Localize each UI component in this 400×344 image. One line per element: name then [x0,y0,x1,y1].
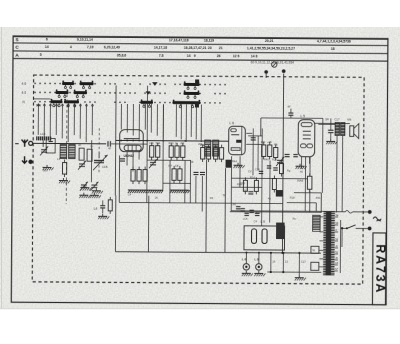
svg-text:18,119: 18,119 [204,38,214,42]
tap box a [311,246,319,253]
wire vertical det2 [257,136,259,170]
svg-text:C1: C1 [237,209,241,213]
switch S6 contact bar [64,100,79,103]
wire padder vertical [90,140,92,182]
coupling capacitor C2 [107,141,109,146]
wire coil down [42,140,44,146]
resistor R2 [64,160,66,163]
svg-text:4F: 4F [287,105,291,109]
resistor R8 [202,145,204,148]
ground lamp a [245,271,247,273]
pilot symbol [272,62,277,67]
svg-text:5R: 5R [325,117,329,121]
svg-text:C8: C8 [175,164,179,168]
svg-text:L 8: L 8 [229,121,234,125]
parts table row lines [13,43,388,46]
svg-text:7,8: 7,8 [159,54,164,58]
svg-text:9,10,11,14: 9,10,11,14 [77,38,93,42]
capacitor C6 [193,171,198,173]
padder capacitor boxes [79,148,84,160]
svg-text:5: 5 [40,53,42,57]
ground below C17 [330,139,332,141]
wire return lower [118,155,120,202]
svg-text:RA6: RA6 [297,179,303,183]
svg-text:C1B: C1B [102,165,108,169]
switch terminal blob upper [195,79,199,85]
svg-text:54A: 54A [156,141,161,145]
svg-text:L 9: L 9 [261,220,266,224]
svg-text:R18: R18 [290,196,295,200]
mains cord symbol [373,217,381,221]
IF can L8 trim pill [231,129,237,132]
ground below can L8 [237,163,239,165]
wire vertical v2 [162,104,165,189]
svg-text:18: 18 [331,47,335,51]
wire bus left vertical [114,85,117,195]
main grid wire [33,142,106,145]
grid capacitor C5 [120,158,125,160]
wire vertical det1 [252,128,254,175]
wave-band switch dotted contact rows [34,82,226,85]
svg-text:14,17,18: 14,17,18 [154,46,167,50]
model label box RA73A [372,233,386,305]
svg-text:R40: R40 [264,157,269,161]
svg-text:4-5: 4-5 [22,91,27,95]
resistor R13d [179,166,181,169]
ground pair a [83,193,85,195]
switch S9 contact bar [184,83,200,86]
tube V2 stems [301,157,303,169]
capacitor C11 [251,137,256,139]
mains terminal dot b [368,227,372,231]
transformer right rail [339,220,341,273]
AF coupling cluster caps [267,165,271,167]
terminal dot above dashed [264,70,268,74]
wire transformer drops [336,135,339,212]
transformer lead wires left [320,216,324,218]
resistor R13c [173,166,175,169]
resistor R13 [138,167,140,170]
ground bus hatched b [170,190,172,193]
wire vertical v7 [201,176,203,211]
svg-text:6,20,12,49: 6,20,12,49 [104,46,120,50]
svg-text:R26: R26 [272,158,277,162]
tube V2 top cap pill [301,123,312,127]
IF can L8 bar a [231,134,239,136]
switch drop wires middle group [120,104,122,129]
ground bus hatched [128,190,130,193]
svg-text:9: 9 [194,54,196,58]
wire vertical v4 [184,160,186,202]
svg-text:CB1: CB1 [231,202,237,206]
resistor RA6 [309,173,311,176]
lower bus wire [267,271,321,273]
svg-text:R7: R7 [169,164,173,168]
HT bus wire [231,210,335,213]
transformer lead wires right [335,216,338,218]
svg-text:C17: C17 [334,117,340,121]
tube V1 electrode stems [126,152,128,166]
svg-text:C4: C4 [128,192,132,196]
svg-text:84A: 84A [316,196,321,200]
capacitor C16 [259,170,263,172]
loop wire top [261,117,323,119]
switch S10 contact bar [184,92,200,95]
resistor R46 [109,197,111,200]
switch S8 contact bar [172,101,200,104]
svg-text:R14: R14 [250,175,255,179]
svg-text:20k: 20k [198,142,203,146]
tube V1 cathode pill [124,145,141,151]
wire tube to transformer [315,122,350,124]
ground below C14 [102,214,104,216]
svg-text:C17: C17 [301,260,306,264]
svg-text:R6: R6 [274,143,278,147]
svg-text:14 8: 14 8 [251,54,258,58]
ground below C21 [84,185,86,187]
svg-text:35,8,6: 35,8,6 [117,53,127,57]
svg-text:R9: R9 [190,160,194,164]
tube V2 grid bars [303,130,311,132]
svg-text:+C5: +C5 [243,217,248,221]
switch wiper arrow row2 [146,91,151,94]
tube V2 cathode pills [300,144,306,148]
output transformer T2 windings [335,122,339,135]
svg-text:4F: 4F [108,146,111,150]
svg-text:23: 23 [208,46,212,50]
trimmer C21 [79,163,85,165]
svg-text:7,19: 7,19 [87,45,94,49]
svg-text:RA73A: RA73A [373,244,387,294]
border frame [11,36,388,305]
svg-text:Rg: Rg [287,169,291,173]
terminal dot mains [282,69,286,73]
trimmer C25 [91,184,97,186]
svg-text:12 6: 12 6 [233,54,240,58]
svg-text:C4: C4 [254,219,258,223]
wire RA6 vertical [309,157,311,176]
svg-text:Ru: Ru [293,217,297,221]
tuning gang dashed link [98,128,100,174]
trimmer C22 [150,161,156,163]
wire can verticals [230,156,232,210]
mains fuse link [335,211,345,213]
svg-text:M6: M6 [347,118,351,122]
resistor R6 [176,143,178,146]
IF can L8 outline [229,126,246,155]
svg-text:17,16,47,118: 17,16,47,118 [169,38,189,42]
resistor R4 [157,143,159,146]
resistor R10 [215,145,217,148]
svg-text:L4: L4 [94,207,98,211]
capacitor C4p [255,212,259,214]
mains transformer T1 core [326,212,332,276]
wire rail cluster bottoms [147,159,191,161]
switch drop wires left group [37,103,39,134]
resistor R17b [255,177,257,180]
wire vertical v6 [195,176,197,203]
resistor R11 [221,145,223,148]
dashed chassis outline [32,75,364,284]
loop wire right drop [321,118,324,192]
resistor R12 [132,167,134,170]
resistor R13b [144,167,146,170]
ground below C1A [95,188,97,190]
capacitor C5p [244,212,248,214]
svg-text:R10: R10 [169,141,174,145]
svg-text:L 6: L 6 [242,257,247,261]
svg-text:20,21: 20,21 [265,39,274,43]
svg-text:14: 14 [45,45,49,49]
electrolytic small blob [276,190,283,197]
svg-text:500: 500 [43,168,48,172]
wire chassis up b [147,196,149,252]
mains transformer T1 winding stack [324,211,335,213]
capacitor C14 [100,205,105,207]
svg-text:4: 4 [70,45,72,49]
switch S5 contact bar [50,100,62,103]
svg-text:16,28,17,47,21: 16,28,17,47,21 [184,46,207,50]
resistor R26 [281,161,283,164]
switch feed wire [33,98,50,100]
svg-text:500: 500 [36,103,41,107]
capacitor C12 [285,153,290,155]
IF can L8 slug [236,140,241,143]
svg-text:L 5: L 5 [300,114,305,118]
switch S2 contact bar [80,82,94,85]
trimmer C23 [277,159,283,161]
IF can inner wire [241,126,243,154]
svg-text:R8: R8 [181,141,185,145]
resistor R5 [170,143,172,146]
svg-text:4F: 4F [78,143,81,147]
RF coil L1 windings [60,145,67,159]
svg-text:R4A: R4A [232,159,237,163]
wire vertical v5 [189,160,191,202]
resistor R17 [244,177,246,180]
svg-text:O: O [335,229,337,232]
switch terminal blob lower [195,101,199,107]
electrolytic C30 [226,160,232,168]
chassis bus junction dots [281,252,283,254]
trimmer C24 [81,184,87,186]
svg-text:1,41,2,50,55,34,94,59,23,2,5,2: 1,41,2,50,55,34,94,59,23,2,5,27 [247,47,295,51]
antenna symbol [21,140,27,147]
tube V2 UL41 envelope [298,120,315,157]
earth terminal symbol [22,156,27,163]
wire rail lower cluster [163,182,191,184]
ground pair b [93,193,95,195]
tube V1 anode bar [124,138,140,140]
electrolytic C8 blob [276,223,285,240]
switch drop wires right group [175,104,177,136]
mains switch lever [342,227,346,229]
svg-text:4-6: 4-6 [22,82,27,86]
wire horizontal grid bus [116,139,228,142]
svg-text:L 8: L 8 [254,257,259,261]
svg-text:21: 21 [219,46,223,50]
wire vertical v3 [169,160,171,202]
loudspeaker [350,126,354,137]
resistor R14 [263,142,265,145]
svg-text:C: C [15,45,19,51]
resistor R9 [208,145,210,148]
switch S7 contact bar [140,101,153,104]
switch wiper arrow row1 [152,82,158,86]
wire can L8 stubs [246,132,252,134]
capacitor C9 [288,112,293,114]
wire chassis up c [205,160,208,252]
svg-text:R1B: R1B [240,181,245,185]
resistor R16 [275,145,277,148]
tube V1 UCH42 envelope [120,130,144,152]
switch S1 contact bar [62,82,74,85]
IF can L8 coil bar [231,148,240,151]
svg-text:26: 26 [217,54,221,58]
svg-text:UCH42: UCH42 [124,154,135,158]
switch S4 contact bar [74,91,88,94]
ground lamp b [258,271,260,273]
svg-text:4,7,44,1,2,3,4,94,5736: 4,7,44,1,2,3,4,94,5736 [317,39,351,43]
capacitor CB1 [236,206,240,208]
wire vertical v1 [146,86,149,203]
wire chassis up a [114,195,116,251]
ground near C10 [299,164,301,166]
resistor R18 [273,176,275,179]
capacitor C17 [328,129,333,131]
mains terminal dot a [368,210,372,214]
wire antenna to coil [33,142,36,144]
lamp feed wires [245,253,247,264]
wire AF bus [248,135,262,137]
wire AVC horizontals [231,186,261,188]
ground below trimmer C20 [46,165,48,167]
ground below L1 [62,178,64,180]
wire vertical det4 [269,160,271,222]
HT bus wire lower [230,211,321,214]
svg-text:A: A [15,53,19,59]
junction dots grid bus [120,140,122,142]
nested loop wires right [294,192,321,194]
wire vertical det3 [261,128,264,225]
capacitor C3 [248,191,253,193]
chassis bus wire [115,252,320,253]
selector slot a [251,229,256,244]
svg-text:6: 6 [46,37,48,41]
voltage selector box [244,226,285,250]
dial lamp La [243,264,249,270]
wire mains vertical [282,74,283,253]
capacitor C10 [293,154,297,156]
tuning capacitor C1B [94,159,104,161]
selector slot b [262,229,267,244]
tap box b [311,262,319,270]
svg-text:CV: CV [248,169,252,173]
ground centre bottom [298,272,300,275]
capacitor C7 [200,171,205,173]
svg-text:+26: +26 [267,140,272,144]
svg-text:L10: L10 [40,132,45,136]
resistor R7 [182,143,184,146]
stub wire a [270,253,272,272]
bottom cluster caps [240,208,244,210]
inner dashed shield line [65,89,68,204]
resistor R15 [269,142,271,145]
wire switch drop [341,227,343,229]
svg-text:14: 14 [187,54,191,58]
filter choke [313,215,321,231]
svg-text:C16: C16 [255,167,260,171]
stub wire c [298,253,300,272]
IF transformer L12 windings [205,140,211,156]
svg-text:140: 140 [149,141,154,145]
dial lamp Lb [256,264,262,270]
coil shield box [46,138,55,153]
antenna coil L10 [36,136,51,140]
resistor R3 [151,143,153,146]
svg-text:R6: R6 [210,196,214,200]
stub wire b [282,253,284,272]
switch S3 contact bar [56,91,69,94]
wire chassis up d [224,168,227,252]
svg-text:140: 140 [261,140,266,144]
trimmer C20 [41,149,47,151]
